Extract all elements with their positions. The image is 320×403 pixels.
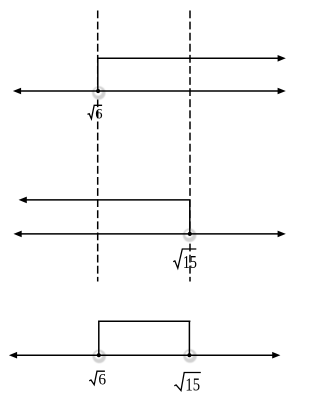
halo of point sqrt6 top bbox=[92, 86, 105, 99]
number line 2 left arrowhead bbox=[14, 231, 22, 238]
svg-text:6: 6 bbox=[98, 371, 106, 388]
vertical connector sqrt15 to middle ray bbox=[189, 200, 191, 234]
number line 2 bbox=[20, 233, 280, 235]
number line 1 bbox=[19, 90, 280, 92]
vertical connector sqrt6 to top ray bbox=[97, 58, 99, 91]
arrowhead left of middle ray bbox=[19, 197, 27, 204]
bracket segment from sqrt6 to sqrt15 (bottom) bbox=[99, 321, 191, 355]
label sqrt6 bottom: radical bbox=[89, 371, 105, 385]
svg-text:6: 6 bbox=[95, 107, 102, 123]
label sqrt6 top: radical bbox=[88, 105, 103, 119]
number line 3 right arrowhead bbox=[272, 352, 280, 359]
halo of point sqrt15 bottom bbox=[183, 349, 196, 362]
point sqrt15 middle bbox=[188, 232, 192, 236]
svg-text:15: 15 bbox=[185, 375, 200, 395]
ray left from sqrt15 (middle) bbox=[25, 199, 190, 201]
arrowhead right of top ray bbox=[278, 55, 286, 62]
label sqrt15 bottom: radical bbox=[174, 373, 201, 391]
number line 1 left arrowhead bbox=[13, 88, 21, 95]
ray right from sqrt6 (top) bbox=[98, 57, 279, 59]
number line 1 right arrowhead bbox=[278, 88, 286, 95]
number line 2 right arrowhead bbox=[278, 231, 286, 238]
point sqrt6 bottom bbox=[97, 353, 101, 357]
dashed vertical guide line at sqrt15 bbox=[189, 11, 191, 282]
dashed vertical guide line at sqrt6 bbox=[97, 11, 99, 282]
number line 3 bbox=[15, 354, 274, 356]
point sqrt15 bottom bbox=[187, 353, 191, 357]
svg-text:15: 15 bbox=[183, 252, 197, 272]
point sqrt6 top bbox=[96, 89, 100, 93]
halo of point sqrt6 bottom bbox=[93, 350, 106, 363]
number line 3 left arrowhead bbox=[9, 352, 17, 359]
halo of point sqrt15 middle bbox=[183, 229, 196, 242]
label sqrt15 middle: radical bbox=[173, 249, 196, 268]
